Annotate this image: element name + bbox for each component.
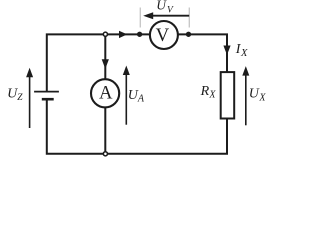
svg-text:A: A xyxy=(99,83,113,104)
voltage arrow UV xyxy=(143,12,189,19)
voltage arrow UX xyxy=(242,66,249,125)
current arrow into ammeter xyxy=(102,59,109,69)
UV bracket tick right xyxy=(188,8,190,28)
wire ammeter branch lower xyxy=(104,107,106,154)
current arrow on top wire xyxy=(119,31,127,38)
voltmeter V xyxy=(150,21,178,49)
UV bracket tick left xyxy=(139,8,141,28)
ammeter A xyxy=(91,79,119,107)
voltage arrow UZ xyxy=(26,68,33,128)
node bottom (junction) xyxy=(103,152,107,156)
wire upper loop: battery top, top rail, right rail to resistor xyxy=(47,34,227,91)
svg-text:V: V xyxy=(156,25,170,46)
terminal dot voltmeter right xyxy=(186,32,191,37)
voltage arrow UA xyxy=(123,66,130,125)
battery UZ short plate xyxy=(42,98,54,101)
battery UZ long plate xyxy=(34,91,59,93)
node top (junction) xyxy=(103,32,107,36)
current arrow IX xyxy=(223,46,230,56)
resistor RX xyxy=(221,72,235,118)
wire ammeter branch upper xyxy=(104,34,106,80)
wire lower loop: battery bottom, bottom rail, up to resistor bottom xyxy=(47,99,227,154)
terminal dot voltmeter left xyxy=(137,32,142,37)
